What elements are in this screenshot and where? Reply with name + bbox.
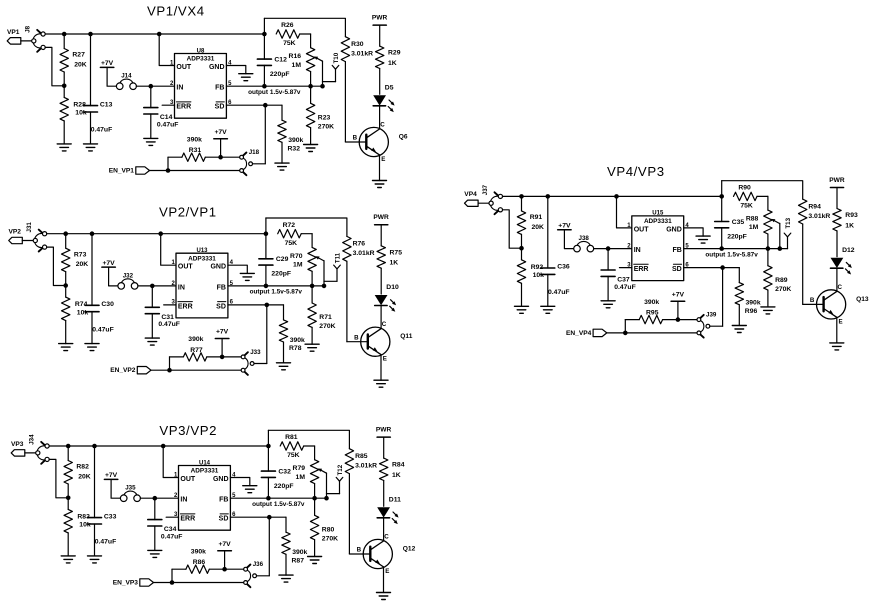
svg-text:C12: C12 bbox=[274, 56, 287, 63]
wire bbox=[45, 47, 64, 85]
svg-text:0.47uF: 0.47uF bbox=[158, 321, 180, 328]
wire emitter bbox=[383, 567, 385, 593]
svg-text:FB: FB bbox=[672, 247, 681, 254]
capacitor C13 bbox=[84, 34, 113, 144]
jumper J32 bbox=[118, 272, 138, 289]
potentiometer R79 bbox=[293, 460, 327, 499]
junction bbox=[218, 155, 223, 160]
capacitor C34 bbox=[148, 498, 183, 550]
op-amp regulator U13 ADP3331 bbox=[171, 248, 233, 318]
svg-text:0.47uF: 0.47uF bbox=[91, 127, 113, 134]
svg-text:VP4: VP4 bbox=[464, 191, 477, 198]
svg-text:FB: FB bbox=[217, 284, 226, 291]
ground bbox=[243, 486, 257, 493]
ground bbox=[373, 181, 387, 188]
svg-text:10k: 10k bbox=[77, 309, 89, 316]
junction bbox=[222, 567, 227, 572]
wire base bbox=[347, 341, 367, 343]
wire bbox=[140, 497, 178, 499]
wire bbox=[22, 240, 33, 242]
svg-text:PWR: PWR bbox=[372, 15, 388, 22]
svg-text:ADP3331: ADP3331 bbox=[644, 218, 672, 225]
resistor R95 bbox=[625, 299, 697, 324]
jumper J34 bbox=[29, 434, 50, 464]
capacitor C32 bbox=[261, 430, 293, 498]
wire output net bbox=[228, 285, 324, 287]
svg-text:R75: R75 bbox=[390, 249, 403, 256]
wire pin3 ERR stub bbox=[166, 516, 178, 518]
ground bbox=[830, 343, 844, 350]
svg-text:output: output bbox=[250, 289, 271, 296]
wire output net bbox=[230, 497, 326, 499]
potentiometer R16 bbox=[289, 48, 323, 86]
junction bbox=[161, 444, 166, 449]
wire bbox=[254, 305, 267, 364]
junction bbox=[264, 284, 269, 289]
jumper J38 bbox=[574, 235, 594, 252]
wire pin3 ERR stub bbox=[164, 304, 176, 306]
ground bbox=[145, 338, 159, 345]
ground bbox=[377, 593, 391, 600]
power +7V bbox=[102, 260, 115, 267]
wire pin1 OUT to rail bbox=[159, 34, 174, 66]
svg-text:R76: R76 bbox=[353, 241, 366, 248]
svg-text:FB: FB bbox=[215, 85, 224, 92]
svg-text:R87: R87 bbox=[292, 557, 305, 564]
wire output net bbox=[684, 248, 780, 250]
net label title VP4/VP3 bbox=[607, 164, 665, 179]
wire EN net bbox=[154, 582, 244, 584]
svg-text:R80: R80 bbox=[322, 526, 335, 533]
svg-text:PWR: PWR bbox=[373, 214, 389, 221]
svg-text:VP2/VP1: VP2/VP1 bbox=[159, 205, 217, 220]
junction bbox=[614, 194, 619, 199]
wire bbox=[503, 210, 522, 248]
svg-text:1K: 1K bbox=[390, 260, 399, 267]
svg-text:D12: D12 bbox=[842, 247, 855, 254]
junction bbox=[264, 231, 269, 236]
resistor R23 bbox=[306, 86, 334, 144]
junction bbox=[623, 331, 628, 336]
svg-text:75K: 75K bbox=[285, 240, 298, 247]
svg-text:+7V: +7V bbox=[214, 129, 227, 136]
ground bbox=[304, 145, 318, 152]
power PWR bbox=[373, 214, 389, 225]
wire bbox=[677, 301, 679, 319]
resistor R86 bbox=[172, 549, 244, 574]
svg-text:VP4/VP3: VP4/VP3 bbox=[607, 164, 665, 179]
resistor R27 bbox=[60, 34, 87, 86]
svg-text:output: output bbox=[252, 501, 273, 508]
svg-text:FB: FB bbox=[219, 497, 228, 504]
svg-text:J33: J33 bbox=[250, 349, 261, 356]
wire bbox=[220, 139, 222, 157]
svg-text:T12: T12 bbox=[337, 464, 344, 475]
svg-text:R85: R85 bbox=[355, 453, 368, 460]
svg-text:10k: 10k bbox=[75, 110, 87, 117]
svg-text:270K: 270K bbox=[318, 124, 334, 131]
svg-text:C37: C37 bbox=[617, 277, 630, 284]
svg-text:C: C bbox=[838, 284, 843, 291]
svg-text:R88: R88 bbox=[746, 216, 759, 223]
ground bbox=[88, 556, 102, 563]
wire bbox=[49, 459, 68, 497]
svg-text:+7V: +7V bbox=[216, 329, 229, 336]
svg-text:R26: R26 bbox=[281, 22, 294, 29]
svg-text:R32: R32 bbox=[288, 145, 301, 152]
svg-text:220pF: 220pF bbox=[271, 271, 291, 278]
ground bbox=[732, 326, 746, 333]
op-amp regulator U8 ADP3331 bbox=[170, 48, 232, 118]
wire bbox=[478, 202, 489, 204]
wire bbox=[169, 357, 171, 370]
svg-text:U8: U8 bbox=[197, 48, 205, 54]
svg-text:0.47uF: 0.47uF bbox=[614, 284, 636, 291]
svg-text:0.47uF: 0.47uF bbox=[92, 326, 114, 333]
power +7V bbox=[100, 60, 113, 67]
wire bbox=[167, 157, 169, 170]
test point T13 bbox=[780, 217, 792, 248]
ground bbox=[84, 144, 98, 151]
resistor R81 bbox=[280, 434, 314, 460]
svg-text:GND: GND bbox=[213, 476, 229, 483]
capacitor C12 bbox=[257, 18, 289, 86]
junction bbox=[719, 246, 724, 251]
svg-text:IN: IN bbox=[634, 247, 641, 254]
svg-text:EN_VP4: EN_VP4 bbox=[566, 330, 592, 337]
wire pin3 ERR stub bbox=[620, 267, 632, 269]
resistor R83 bbox=[64, 498, 91, 556]
wire bbox=[221, 339, 223, 357]
junction bbox=[62, 84, 67, 89]
wire EN net bbox=[151, 369, 241, 371]
ground bbox=[374, 380, 388, 387]
resistor R29 bbox=[376, 25, 401, 94]
jumper J37 bbox=[482, 184, 503, 214]
ground bbox=[601, 301, 615, 308]
svg-text:J31: J31 bbox=[26, 222, 33, 233]
wire bbox=[594, 248, 632, 250]
wire bbox=[21, 40, 32, 42]
wire bbox=[836, 268, 838, 291]
junction bbox=[166, 168, 171, 173]
svg-text:R71: R71 bbox=[319, 314, 332, 321]
potentiometer R70 bbox=[290, 247, 324, 286]
ground bbox=[239, 74, 253, 81]
svg-text:IN: IN bbox=[178, 284, 185, 291]
svg-text:VP1/VX4: VP1/VX4 bbox=[147, 4, 205, 19]
svg-text:SD: SD bbox=[219, 516, 229, 523]
junction bbox=[153, 496, 158, 501]
svg-text:VP3: VP3 bbox=[11, 441, 24, 448]
svg-text:VP3/VP2: VP3/VP2 bbox=[159, 423, 217, 438]
ground bbox=[148, 550, 162, 557]
svg-text:R82: R82 bbox=[76, 464, 89, 471]
wire bbox=[224, 551, 226, 569]
svg-text:3.01kR: 3.01kR bbox=[355, 463, 377, 470]
resistor R71 bbox=[308, 286, 336, 344]
wire bbox=[109, 267, 118, 286]
svg-text:390k: 390k bbox=[290, 337, 305, 344]
port EN_VP3 bbox=[113, 579, 154, 587]
wire emitter bbox=[380, 355, 382, 381]
svg-text:1M: 1M bbox=[292, 62, 302, 69]
svg-text:3.01kR: 3.01kR bbox=[808, 213, 830, 220]
junction bbox=[262, 84, 267, 89]
wire bbox=[383, 518, 385, 541]
svg-text:U13: U13 bbox=[196, 248, 208, 254]
wire top bypass bbox=[266, 218, 347, 236]
wire bbox=[379, 106, 381, 129]
junction bbox=[63, 283, 68, 288]
wire base bbox=[345, 141, 365, 143]
resistor R92 bbox=[517, 248, 544, 306]
ground bbox=[61, 556, 75, 563]
svg-text:20K: 20K bbox=[532, 224, 545, 231]
jumper J33 bbox=[241, 349, 261, 375]
resistor R96 bbox=[735, 283, 761, 326]
svg-text:J8: J8 bbox=[25, 25, 32, 32]
transistor Q13 bbox=[810, 284, 869, 326]
resistor R77 bbox=[170, 336, 242, 361]
ground bbox=[144, 138, 158, 145]
svg-text:R86: R86 bbox=[193, 559, 206, 566]
LED D10 bbox=[375, 284, 399, 312]
svg-text:R95: R95 bbox=[646, 310, 659, 317]
capacitor C36 bbox=[541, 196, 570, 306]
port VP3 bbox=[11, 441, 25, 456]
wire pin4 GND bbox=[230, 478, 249, 486]
svg-text:C: C bbox=[384, 533, 389, 540]
svg-text:IN: IN bbox=[176, 85, 183, 92]
svg-text:C36: C36 bbox=[557, 264, 570, 271]
svg-text:390k: 390k bbox=[292, 549, 307, 556]
wire bbox=[380, 306, 382, 329]
junction bbox=[310, 284, 315, 289]
svg-text:R31: R31 bbox=[189, 147, 202, 154]
svg-text:75K: 75K bbox=[740, 203, 753, 210]
svg-text:J36: J36 bbox=[253, 561, 264, 568]
svg-text:1M: 1M bbox=[749, 224, 759, 231]
svg-text:75K: 75K bbox=[287, 452, 300, 459]
svg-text:B: B bbox=[353, 135, 358, 142]
transistor Q12 bbox=[357, 533, 416, 575]
junction bbox=[170, 580, 175, 585]
junction bbox=[265, 303, 270, 308]
svg-text:R70: R70 bbox=[290, 253, 303, 260]
resistor R74 bbox=[62, 286, 89, 344]
svg-text:390k: 390k bbox=[644, 299, 659, 306]
jumper J14 bbox=[116, 73, 136, 90]
svg-text:U14: U14 bbox=[199, 460, 211, 466]
ground bbox=[277, 363, 291, 370]
svg-text:270K: 270K bbox=[319, 323, 335, 330]
wire EN net bbox=[607, 332, 697, 334]
junction bbox=[90, 231, 95, 236]
svg-text:ADP3331: ADP3331 bbox=[187, 56, 215, 63]
svg-text:C34: C34 bbox=[164, 526, 177, 533]
svg-text:B: B bbox=[354, 334, 359, 341]
svg-text:1M: 1M bbox=[296, 474, 306, 481]
svg-text:EN_VP3: EN_VP3 bbox=[113, 579, 139, 586]
power PWR bbox=[376, 427, 392, 438]
svg-text:20K: 20K bbox=[78, 473, 91, 480]
svg-text:C33: C33 bbox=[104, 513, 117, 520]
port VP2 bbox=[9, 229, 23, 244]
svg-text:VP2: VP2 bbox=[9, 229, 22, 236]
svg-text:J37: J37 bbox=[482, 184, 489, 195]
resistor R93 bbox=[833, 188, 858, 257]
svg-text:E: E bbox=[839, 318, 843, 325]
svg-text:D10: D10 bbox=[386, 284, 399, 291]
svg-text:SD: SD bbox=[672, 266, 682, 273]
svg-text:10k: 10k bbox=[533, 272, 545, 279]
svg-text:R90: R90 bbox=[738, 185, 751, 192]
capacitor C14 bbox=[144, 86, 179, 138]
resistor R73 bbox=[62, 234, 89, 286]
svg-text:3.01kR: 3.01kR bbox=[351, 51, 373, 58]
junction bbox=[519, 194, 524, 199]
svg-text:PWR: PWR bbox=[376, 427, 392, 434]
svg-text:SD: SD bbox=[215, 104, 225, 111]
wire bbox=[138, 285, 176, 287]
jumper J36 bbox=[244, 561, 264, 587]
svg-text:20K: 20K bbox=[74, 61, 87, 68]
svg-text:R93: R93 bbox=[845, 212, 858, 219]
junction bbox=[720, 265, 725, 270]
wire base bbox=[349, 553, 369, 555]
svg-text:OUT: OUT bbox=[180, 476, 196, 483]
wire pin3 ERR stub bbox=[162, 104, 174, 106]
wire pin1 OUT to rail bbox=[617, 196, 632, 228]
transistor Q11 bbox=[354, 321, 413, 363]
svg-text:C31: C31 bbox=[161, 314, 174, 321]
net label title VP2/VP1 bbox=[159, 205, 217, 220]
power +7V bbox=[558, 223, 571, 230]
capacitor C33 bbox=[88, 446, 117, 556]
svg-text:1K: 1K bbox=[845, 222, 854, 229]
junction bbox=[158, 231, 163, 236]
svg-text:R23: R23 bbox=[318, 114, 331, 121]
ground bbox=[240, 273, 254, 280]
port EN_VP1 bbox=[109, 167, 150, 175]
ground bbox=[275, 163, 289, 170]
svg-text:+7V: +7V bbox=[558, 223, 571, 230]
LED D12 bbox=[831, 247, 855, 275]
svg-text:C30: C30 bbox=[101, 301, 114, 308]
resistor R85 bbox=[345, 449, 377, 554]
wire pin4 GND bbox=[228, 265, 247, 273]
resistor R76 bbox=[343, 236, 375, 341]
LED D11 bbox=[377, 496, 401, 524]
test point T11 bbox=[324, 252, 342, 281]
svg-text:0.47uF: 0.47uF bbox=[161, 534, 183, 541]
junction bbox=[262, 32, 267, 37]
resistor R84 bbox=[380, 437, 405, 506]
svg-text:C13: C13 bbox=[100, 101, 113, 108]
resistor R28 bbox=[60, 86, 87, 144]
net label title VP3/VP2 bbox=[159, 423, 217, 438]
wire bbox=[171, 569, 173, 582]
svg-text:1.5v-5.87v: 1.5v-5.87v bbox=[271, 289, 302, 296]
resistor R87 bbox=[282, 532, 308, 575]
svg-text:T10: T10 bbox=[333, 52, 340, 63]
junction bbox=[66, 496, 71, 501]
resistor R94 bbox=[799, 199, 831, 304]
wire SD net bbox=[230, 517, 286, 532]
wire bbox=[624, 320, 626, 333]
jumper J39 bbox=[697, 312, 717, 338]
svg-text:OUT: OUT bbox=[178, 264, 194, 271]
svg-text:J39: J39 bbox=[706, 312, 717, 319]
svg-text:ERR: ERR bbox=[176, 104, 191, 111]
svg-text:C29: C29 bbox=[276, 256, 289, 263]
resistor R80 bbox=[310, 498, 338, 556]
svg-text:R72: R72 bbox=[283, 222, 296, 229]
svg-text:Q6: Q6 bbox=[399, 133, 408, 140]
junction bbox=[263, 103, 268, 108]
wire SD net bbox=[226, 105, 282, 120]
svg-text:D11: D11 bbox=[389, 496, 401, 503]
svg-text:220pF: 220pF bbox=[727, 233, 747, 240]
wire bbox=[25, 452, 36, 454]
svg-text:270K: 270K bbox=[775, 286, 791, 293]
svg-text:+7V: +7V bbox=[105, 472, 118, 479]
wire top bypass bbox=[268, 430, 349, 448]
power PWR bbox=[829, 177, 845, 188]
junction bbox=[266, 496, 271, 501]
junction bbox=[62, 32, 67, 37]
svg-text:PWR: PWR bbox=[829, 177, 845, 184]
junction bbox=[92, 444, 97, 449]
wire main rail bbox=[45, 33, 264, 35]
svg-text:ADP3331: ADP3331 bbox=[191, 468, 219, 475]
junction bbox=[149, 84, 154, 89]
capacitor C35 bbox=[715, 181, 747, 249]
svg-text:ERR: ERR bbox=[178, 303, 193, 310]
capacitor C31 bbox=[145, 286, 180, 338]
wire bbox=[47, 247, 66, 285]
ground bbox=[696, 236, 710, 243]
svg-text:C32: C32 bbox=[278, 468, 291, 475]
net label output bbox=[252, 501, 305, 508]
svg-text:J18: J18 bbox=[249, 149, 260, 156]
test point T10 bbox=[323, 52, 341, 81]
op-amp regulator U14 ADP3331 bbox=[174, 460, 236, 530]
junction bbox=[324, 496, 329, 501]
LED D5 bbox=[373, 84, 394, 112]
svg-text:GND: GND bbox=[666, 226, 682, 233]
junction bbox=[63, 231, 68, 236]
svg-text:B: B bbox=[357, 547, 362, 554]
wire bbox=[111, 479, 120, 498]
svg-text:ERR: ERR bbox=[180, 516, 195, 523]
junction bbox=[322, 284, 327, 289]
wire emitter bbox=[379, 155, 381, 181]
resistor R72 bbox=[278, 222, 312, 248]
svg-text:0.47uF: 0.47uF bbox=[157, 122, 179, 129]
svg-text:J34: J34 bbox=[29, 434, 36, 445]
junction bbox=[606, 246, 611, 251]
resistor R91 bbox=[517, 196, 544, 248]
net label output bbox=[705, 251, 758, 258]
svg-text:+7V: +7V bbox=[672, 291, 685, 298]
power +7V bbox=[671, 291, 685, 301]
ground bbox=[59, 344, 73, 351]
svg-text:1.5v-5.87v: 1.5v-5.87v bbox=[270, 89, 301, 96]
op-amp regulator U15 ADP3331 bbox=[627, 211, 689, 281]
ground bbox=[279, 575, 293, 582]
